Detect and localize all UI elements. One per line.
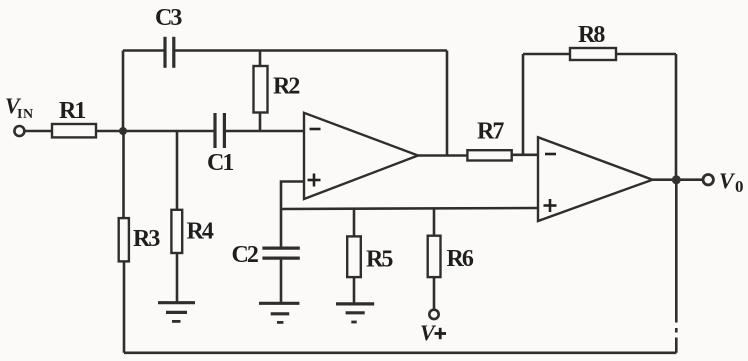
resistor R6 — [428, 236, 441, 277]
svg-text:R3: R3 — [133, 226, 160, 252]
svg-text:R1: R1 — [59, 98, 85, 124]
wire — [280, 209, 283, 248]
wire — [353, 209, 356, 237]
wire — [123, 49, 165, 52]
svg-text:R5: R5 — [366, 247, 393, 273]
resistor R7 — [467, 150, 511, 160]
resistor R5 — [347, 236, 361, 277]
ground — [259, 303, 299, 322]
svg-text:R6: R6 — [447, 246, 474, 272]
wire — [446, 51, 449, 156]
svg-text:R2: R2 — [273, 74, 299, 100]
resistor R3 — [119, 218, 129, 261]
svg-text:V: V — [420, 320, 437, 345]
terminal VIN — [14, 126, 24, 136]
svg-text:IN: IN — [17, 107, 34, 122]
wire — [281, 182, 304, 210]
wire — [616, 53, 676, 56]
wire — [122, 131, 125, 218]
svg-text:C1: C1 — [207, 150, 233, 176]
wire — [123, 261, 126, 352]
wire — [675, 328, 678, 333]
wire — [433, 209, 436, 236]
wire — [259, 113, 262, 132]
wire — [176, 253, 179, 303]
wire — [224, 130, 304, 133]
wire — [124, 351, 676, 354]
svg-text:C2: C2 — [232, 242, 258, 268]
svg-text:C3: C3 — [155, 5, 182, 31]
wire — [512, 154, 538, 157]
wire — [353, 277, 356, 304]
capacitor C2 — [262, 248, 299, 258]
wire — [174, 49, 447, 52]
wire — [675, 54, 678, 180]
wire — [675, 338, 678, 353]
node A — [119, 127, 127, 135]
svg-text:0: 0 — [735, 177, 744, 196]
svg-text:R8: R8 — [578, 22, 605, 48]
capacitor C1 — [215, 113, 224, 148]
svg-text:R7: R7 — [477, 119, 504, 145]
wire — [418, 154, 467, 157]
wire — [281, 208, 538, 209]
resistor R8 — [570, 48, 616, 60]
wire — [433, 277, 436, 310]
wire — [653, 178, 704, 181]
terminal V0 — [703, 175, 713, 185]
terminal V+ — [429, 310, 438, 319]
wire — [96, 130, 215, 133]
op-amp U2 — [538, 137, 653, 221]
ground — [158, 303, 195, 322]
wire — [176, 131, 179, 210]
resistor R4 — [171, 210, 182, 253]
svg-text:R4: R4 — [187, 219, 214, 245]
wire — [122, 51, 125, 132]
ground — [336, 304, 374, 322]
svg-text:V: V — [719, 168, 736, 193]
wire — [280, 258, 283, 303]
wire — [259, 51, 262, 67]
wire — [523, 53, 570, 56]
wire — [522, 54, 525, 155]
resistor R2 — [254, 66, 268, 113]
wire — [25, 130, 52, 133]
capacitor C3 — [165, 37, 174, 68]
wire — [675, 180, 678, 323]
op-amp U1 — [304, 113, 418, 199]
node output — [672, 175, 681, 184]
resistor R1 — [52, 124, 96, 137]
